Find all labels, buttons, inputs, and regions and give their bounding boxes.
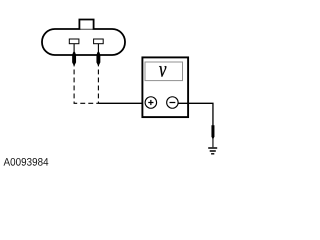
wire from negative terminal to ground bbox=[178, 103, 213, 126]
voltmeter V1 body bbox=[142, 57, 188, 117]
connector J1 body bbox=[42, 29, 125, 55]
voltmeter V label bbox=[159, 66, 166, 77]
ground symbol bbox=[208, 148, 217, 154]
test lead 2 (dashed wire) bbox=[97, 62, 99, 104]
wire to voltmeter positive terminal bbox=[98, 102, 144, 104]
probe tip 1 (arrow to pin 1) bbox=[72, 51, 76, 66]
terminal pin 2 bbox=[94, 39, 104, 44]
connector J1 top tab bbox=[79, 20, 93, 30]
terminal pin 1 bbox=[69, 39, 79, 44]
voltmeter positive terminal bbox=[145, 97, 157, 109]
figure label A0093984 bbox=[4, 158, 49, 166]
probe tip 2 (arrow to pin 2) bbox=[96, 51, 100, 66]
ground probe tip bbox=[211, 125, 214, 140]
pin 1 tail wire bbox=[73, 44, 75, 53]
test lead 1 (dashed wire) bbox=[74, 62, 98, 104]
voltmeter V1 display bbox=[145, 62, 183, 81]
pin 2 tail wire bbox=[97, 44, 99, 53]
ground probe lead wire bbox=[212, 138, 214, 147]
voltmeter negative terminal bbox=[167, 97, 179, 109]
